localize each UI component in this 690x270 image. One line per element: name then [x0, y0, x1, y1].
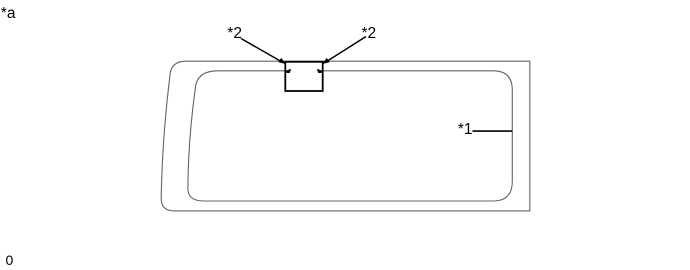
svg-text:0: 0 — [6, 252, 14, 268]
glass outer outline — [161, 61, 530, 211]
leader line *2 right — [325, 37, 366, 63]
svg-text:*1: *1 — [458, 121, 473, 138]
svg-text:*2: *2 — [227, 25, 242, 42]
leader line *2 left — [241, 39, 283, 63]
bracket tab left — [285, 69, 292, 73]
bracket cover rectangle — [285, 62, 322, 91]
svg-text:*2: *2 — [362, 25, 377, 42]
arrowhead *2 left — [279, 58, 286, 64]
arrowhead *2 right — [322, 58, 329, 64]
bracket tab right — [317, 69, 324, 73]
leader line *1 — [473, 130, 513, 132]
svg-text:*a: *a — [1, 5, 16, 22]
ceramic inner outline — [188, 71, 512, 201]
